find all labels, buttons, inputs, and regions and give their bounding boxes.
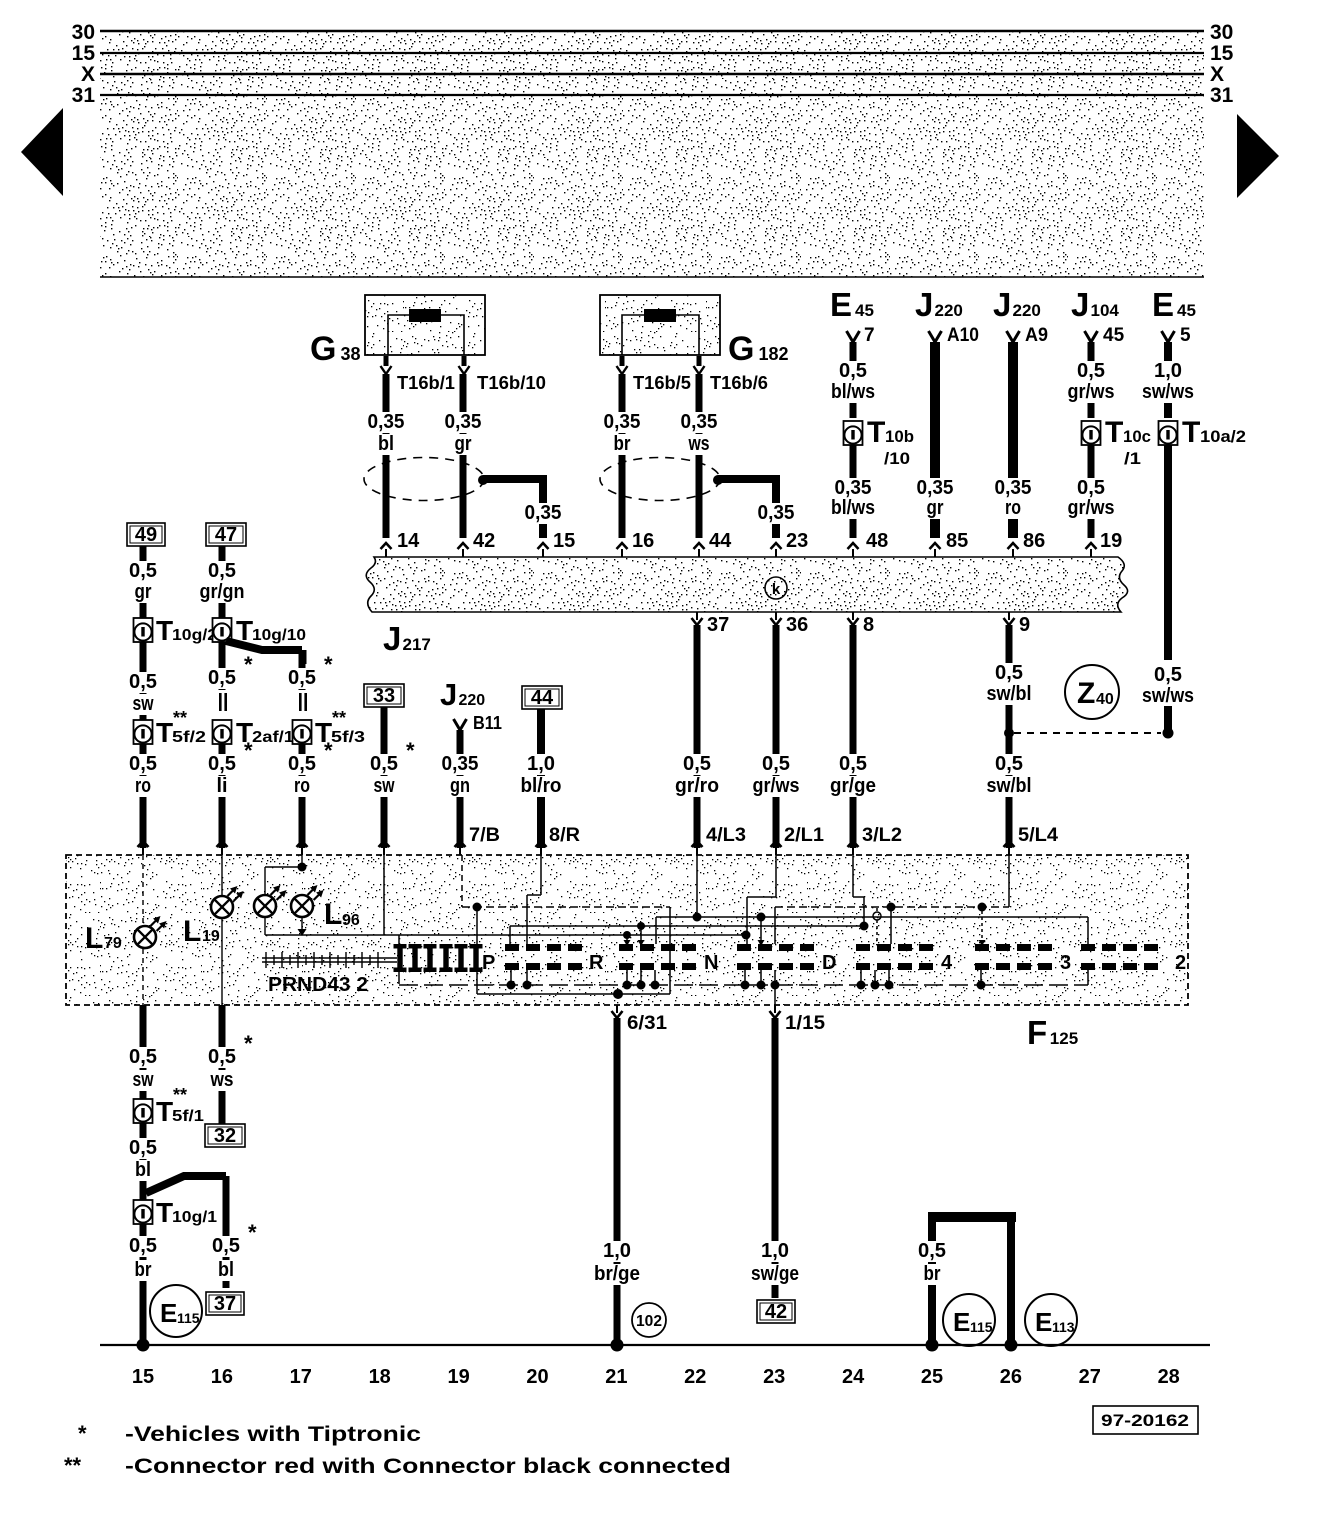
svg-text:25: 25 — [921, 1366, 943, 1388]
svg-text:bl/ws: bl/ws — [831, 381, 875, 403]
label Z40 circle — [1065, 665, 1119, 719]
svg-text:0,5: 0,5 — [208, 560, 236, 582]
svg-text:T: T — [156, 717, 173, 748]
contact group D — [737, 944, 751, 951]
svg-text:30: 30 — [1210, 21, 1233, 44]
svg-text:gr: gr — [135, 581, 152, 603]
wire 0,5* li to F125 — [219, 744, 226, 848]
J217 bottom pin 37 — [696, 612, 698, 620]
svg-text:2af/1: 2af/1 — [252, 729, 294, 746]
wire 0,35 ro from J220/A9 to J217 pin 86 — [1008, 342, 1018, 538]
svg-text:br/ge: br/ge — [594, 1263, 640, 1285]
svg-text:PRND43 2: PRND43 2 — [268, 974, 368, 996]
wire sw/ws down to Z40 node — [1164, 445, 1172, 660]
svg-text:37: 37 — [707, 614, 729, 636]
svg-text:0,5: 0,5 — [208, 753, 236, 775]
svg-text:15: 15 — [72, 42, 96, 65]
svg-text:0,35: 0,35 — [835, 477, 872, 499]
svg-text:A9: A9 — [1025, 325, 1048, 346]
svg-text:10g/1: 10g/1 — [172, 1209, 217, 1226]
svg-text:0,35: 0,35 — [604, 411, 641, 433]
svg-text:20: 20 — [526, 1366, 548, 1388]
svg-text:1,0: 1,0 — [1154, 360, 1182, 382]
svg-text:1,0: 1,0 — [761, 1240, 789, 1262]
switch wiper comb position P — [397, 944, 402, 972]
wire 0,35 bl from G38/1 to J217 pin 14 — [383, 374, 390, 538]
svg-text:X: X — [81, 63, 95, 86]
svg-text:47: 47 — [215, 524, 237, 546]
svg-text:0,5: 0,5 — [129, 1046, 157, 1068]
G182 shield junction — [713, 475, 723, 485]
svg-text:gn: gn — [450, 775, 470, 797]
break symbol col 16 — [219, 693, 222, 711]
svg-text:32: 32 — [214, 1125, 236, 1147]
svg-text:0,5: 0,5 — [129, 1235, 157, 1257]
svg-text:/1: /1 — [1124, 449, 1141, 468]
ground reference line — [100, 1344, 1210, 1346]
svg-text:sw: sw — [133, 1069, 154, 1091]
svg-text:X: X — [1210, 63, 1224, 86]
wire inside F125 col16 through lamp L19 — [221, 855, 223, 896]
svg-text:23: 23 — [763, 1366, 785, 1388]
svg-text:*: * — [78, 1421, 87, 1446]
svg-text:44: 44 — [709, 530, 732, 552]
svg-text:85: 85 — [946, 530, 968, 552]
lamp L19 — [211, 896, 233, 918]
svg-text:0,5: 0,5 — [995, 662, 1023, 684]
svg-text:24: 24 — [842, 1366, 865, 1388]
wire 1,0 sw/ge from F125/1-15 — [772, 1018, 779, 1298]
wire 0,5 gr/ws from J217/36 to F125 2/L1 — [773, 625, 780, 848]
svg-text:97-20162: 97-20162 — [1101, 1411, 1189, 1430]
wire 0,5 sw col15 below F125 — [140, 1005, 147, 1345]
wire 0,5 gr/ws to J217 pin 19 — [1088, 445, 1095, 538]
svg-text:li: li — [217, 775, 228, 797]
svg-text:45: 45 — [1103, 325, 1125, 346]
wire 0,35 gn from J220/B11 to F125 7/B — [457, 730, 464, 848]
svg-text:gr/gn: gr/gn — [200, 581, 245, 603]
svg-text:1,0: 1,0 — [603, 1240, 631, 1262]
svg-text:15: 15 — [553, 530, 575, 552]
svg-text:ro: ro — [1005, 497, 1021, 519]
svg-text:**: ** — [64, 1453, 82, 1478]
svg-text:T: T — [1105, 416, 1123, 449]
svg-text:36: 36 — [786, 614, 808, 636]
1/15 exit stub — [774, 970, 776, 1005]
ground designation E115 circle left — [150, 1285, 202, 1337]
svg-text:33: 33 — [373, 685, 395, 707]
svg-text:14: 14 — [397, 530, 420, 552]
Z40 equipotential dashed link — [1014, 732, 1161, 734]
contact group 4 — [856, 944, 870, 951]
svg-text:gr/ge: gr/ge — [830, 775, 876, 797]
svg-text:R: R — [589, 952, 604, 974]
svg-text:0,5: 0,5 — [129, 753, 157, 775]
svg-text:**: ** — [173, 1085, 187, 1105]
svg-text:0,5: 0,5 — [129, 1137, 157, 1159]
power supply band (terminals 30/15/X/31) — [100, 31, 1204, 277]
svg-text:38: 38 — [340, 344, 360, 364]
connection 32 box — [205, 1124, 245, 1147]
wire 0,5* ws col16 below F125 — [219, 1005, 226, 1124]
svg-text:86: 86 — [1023, 530, 1045, 552]
diagram number box 97-20162 — [1093, 1406, 1198, 1434]
svg-text:sw/ws: sw/ws — [1142, 685, 1194, 707]
svg-text:0,5: 0,5 — [683, 753, 711, 775]
wire 0,5 ro from T5f/2 to F125 — [140, 744, 147, 848]
node: wire end dot at Z40 line — [1163, 728, 1174, 739]
svg-text:21: 21 — [605, 1366, 627, 1388]
svg-text:G: G — [310, 330, 336, 368]
svg-text:104: 104 — [1091, 301, 1120, 320]
wire 0,35 ws from G182/6 to J217 pin 44 — [696, 374, 703, 538]
svg-text:P: P — [482, 952, 495, 974]
svg-text:1/15: 1/15 — [785, 1013, 825, 1034]
svg-text:br: br — [614, 433, 631, 455]
wire 0,5 gr/ge from J217/8 to F125 3/L2 — [850, 625, 857, 848]
J220 pin A9 arrow — [1007, 331, 1020, 342]
svg-text:0,5: 0,5 — [288, 753, 316, 775]
bus line 30 — [100, 30, 1204, 32]
svg-text:gr/ws: gr/ws — [1068, 497, 1115, 519]
svg-text:15: 15 — [1210, 42, 1234, 65]
svg-text:A10: A10 — [947, 325, 979, 346]
rail 5/L4 to D/4/3 contacts — [1008, 855, 1010, 907]
svg-text:ro: ro — [294, 775, 310, 797]
rail from sw wire and L96 to N/D contacts — [383, 855, 385, 935]
svg-text:J: J — [383, 620, 401, 657]
svg-text:J: J — [993, 286, 1011, 323]
svg-text:0,5: 0,5 — [129, 671, 157, 693]
svg-text:113: 113 — [1052, 1319, 1075, 1335]
lamp L96 right — [291, 895, 313, 917]
svg-text:22: 22 — [684, 1366, 706, 1388]
svg-text:17: 17 — [290, 1366, 312, 1388]
branch to connection 37 — [146, 1176, 226, 1193]
svg-text:220: 220 — [935, 301, 963, 320]
svg-text:217: 217 — [403, 635, 431, 654]
svg-text:-Connector red with Connector: -Connector red with Connector black conn… — [125, 1455, 731, 1478]
svg-text:2: 2 — [1175, 952, 1186, 974]
svg-text:sw/bl: sw/bl — [987, 683, 1032, 705]
wire 0,5* ro to F125 — [299, 744, 306, 848]
svg-text:15: 15 — [132, 1366, 154, 1388]
svg-text:0,35: 0,35 — [995, 477, 1032, 499]
svg-text:0,5: 0,5 — [370, 753, 398, 775]
svg-text:N: N — [704, 952, 718, 974]
wire 1,0 br/ge from F125/6-31 to ground — [614, 1018, 621, 1345]
svg-text:102: 102 — [636, 1313, 662, 1330]
svg-text:10g/2: 10g/2 — [172, 627, 217, 644]
svg-text:*: * — [324, 652, 333, 677]
svg-text:0,35: 0,35 — [758, 502, 795, 524]
svg-text:T16b/6: T16b/6 — [710, 373, 768, 393]
wire 0,5 sw/bl from J217/9 to F125 5/L4 — [1006, 625, 1013, 733]
svg-text:/10: /10 — [884, 449, 910, 468]
svg-text:0,35: 0,35 — [681, 411, 718, 433]
ground junction col26 — [1005, 1339, 1018, 1352]
connection 47 box — [206, 523, 246, 546]
G38 shield ellipse — [364, 458, 484, 501]
E45 pin 7 arrow — [847, 331, 860, 342]
svg-text:18: 18 — [369, 1366, 391, 1388]
svg-text:**: ** — [173, 708, 187, 728]
svg-text:B11: B11 — [473, 713, 502, 733]
svg-text:sw: sw — [374, 775, 395, 797]
svg-text:96: 96 — [342, 912, 360, 929]
ground designation E113 circle — [1025, 1294, 1077, 1346]
svg-text:28: 28 — [1158, 1366, 1180, 1388]
wire 0,35 bl/ws to J217 pin 48 — [850, 445, 857, 538]
svg-text:**: ** — [332, 708, 346, 728]
wire 1,0 sw/ws from E45/5 — [1164, 342, 1172, 418]
junction dot on sw/bl wire — [1004, 728, 1014, 738]
svg-text:J: J — [915, 286, 933, 323]
G38 pin T16b/10 — [462, 356, 467, 366]
break symbol col 17 — [299, 693, 302, 711]
multi-function switch F125 band — [66, 855, 1188, 1005]
svg-text:3: 3 — [1060, 952, 1071, 974]
svg-text:23: 23 — [786, 530, 808, 552]
G38 shield junction — [478, 475, 488, 485]
contact group R — [505, 944, 519, 951]
svg-text:ws: ws — [210, 1069, 234, 1091]
svg-text:gr: gr — [455, 433, 472, 455]
svg-text:19: 19 — [202, 928, 220, 945]
svg-text:115: 115 — [177, 1310, 200, 1326]
E45 pin 5 arrow — [1162, 331, 1175, 342]
rail 917 corner to contact 3 — [1087, 917, 1089, 944]
svg-text:48: 48 — [866, 530, 888, 552]
svg-text:45: 45 — [855, 301, 874, 320]
wire 0,5 br to ground — [126, 1236, 160, 1257]
svg-text:E: E — [1035, 1307, 1052, 1337]
svg-text:gr: gr — [927, 497, 944, 519]
svg-text:J: J — [1071, 286, 1089, 323]
J220 pin B11 arrow — [454, 719, 467, 730]
svg-text:5/L4: 5/L4 — [1018, 825, 1058, 846]
G38 shield drain wire to pin 15 — [483, 475, 547, 483]
bus line 31 — [100, 94, 1204, 96]
sensor G38 box — [365, 295, 485, 355]
svg-text:220: 220 — [1013, 301, 1041, 320]
wire 7/B dash-dot into F125 — [461, 855, 463, 907]
svg-text:8/R: 8/R — [549, 825, 580, 846]
svg-text:2/L1: 2/L1 — [784, 825, 824, 846]
bottom collector rail to terminal 1/15 — [399, 984, 1088, 986]
G182 shield drain wire to pin 23 — [718, 475, 780, 483]
svg-text:40: 40 — [1096, 691, 1114, 708]
svg-text:*: * — [244, 738, 253, 763]
sensor G182 box — [600, 295, 720, 355]
svg-text:*: * — [406, 738, 415, 763]
G38 pin T16b/1 — [384, 356, 389, 366]
wire 0,35 gr from J220/A10 to J217 pin 85 — [930, 342, 940, 538]
svg-text:125: 125 — [1050, 1029, 1078, 1048]
ground designation 102 circle — [632, 1303, 666, 1337]
svg-text:0,5: 0,5 — [129, 560, 157, 582]
ground designation E115 circle right — [943, 1294, 995, 1346]
svg-text:0,5: 0,5 — [1154, 664, 1182, 686]
svg-text:T: T — [1182, 416, 1200, 449]
wire 0,5 bl/ws from E45/7 — [850, 342, 857, 418]
G182 resistor element — [644, 309, 676, 322]
svg-text:10a/2: 10a/2 — [1200, 427, 1246, 446]
svg-text:79: 79 — [104, 935, 122, 952]
ground junction col15 — [137, 1339, 150, 1352]
contact group 2 — [1081, 944, 1095, 951]
svg-text:F: F — [1027, 1014, 1047, 1051]
svg-text:T16b/1: T16b/1 — [397, 373, 455, 393]
svg-text:7/B: 7/B — [469, 825, 500, 846]
contact group N — [619, 944, 633, 951]
svg-text:*: * — [248, 1220, 257, 1245]
svg-text:-Vehicles with Tiptronic: -Vehicles with Tiptronic — [125, 1423, 421, 1446]
svg-text:10g/10: 10g/10 — [252, 627, 306, 644]
G182 internal wires — [622, 315, 699, 355]
svg-text:*: * — [244, 652, 253, 677]
svg-text:sw/bl: sw/bl — [987, 775, 1032, 797]
G182 pin T16b/6 — [697, 356, 702, 366]
G38 resistor element — [409, 309, 441, 322]
svg-text:16: 16 — [632, 530, 654, 552]
svg-text:Z: Z — [1077, 677, 1095, 710]
svg-text:0,35: 0,35 — [917, 477, 954, 499]
svg-text:gr/ro: gr/ro — [675, 775, 719, 797]
rail 4/L3 to N and D contacts — [696, 855, 698, 917]
svg-text:16: 16 — [211, 1366, 233, 1388]
wire 8/R to R contact — [540, 855, 542, 895]
svg-text:0,5: 0,5 — [208, 667, 236, 689]
left continuation arrow — [21, 108, 63, 196]
svg-text:0,5: 0,5 — [288, 667, 316, 689]
svg-text:sw/ws: sw/ws — [1142, 381, 1194, 403]
svg-text:45: 45 — [1177, 301, 1196, 320]
svg-text:D: D — [822, 952, 836, 974]
ground junction col25 — [926, 1339, 939, 1352]
selector mechanical linkage PRND432 — [262, 957, 397, 959]
J217 bottom pin 36 — [775, 612, 777, 620]
svg-text:37: 37 — [214, 1293, 236, 1315]
G182 pin T16b/5 — [620, 356, 625, 366]
wire 0,35 gr from G38/10 to J217 pin 42 — [460, 374, 467, 538]
wire inside F125 col15 through lamp L79 — [142, 855, 144, 925]
connection 33 box — [364, 684, 404, 707]
svg-text:T16b/10: T16b/10 — [477, 373, 546, 393]
wire 0,5 gr/ws from J104/45 — [1088, 342, 1095, 418]
svg-text:10b: 10b — [885, 427, 914, 446]
svg-text:bl: bl — [218, 1259, 234, 1281]
ground junction col21 — [611, 1339, 624, 1352]
svg-text:42: 42 — [765, 1301, 787, 1323]
bus line 15 — [100, 52, 1204, 54]
svg-text:E: E — [160, 1298, 177, 1328]
svg-text:0,5: 0,5 — [1077, 360, 1105, 382]
svg-text:27: 27 — [1079, 1366, 1101, 1388]
svg-text:4: 4 — [941, 952, 953, 974]
rail to terminal 6/31 — [477, 993, 670, 995]
svg-text:0,5: 0,5 — [839, 360, 867, 382]
svg-text:5f/2: 5f/2 — [172, 729, 206, 746]
svg-text:44: 44 — [531, 687, 554, 709]
k-circle marker in J217 — [765, 577, 787, 599]
svg-text:220: 220 — [459, 692, 486, 709]
svg-text:0,5: 0,5 — [918, 1240, 946, 1262]
svg-text:19: 19 — [447, 1366, 469, 1388]
svg-text:42: 42 — [473, 530, 495, 552]
svg-text:*: * — [244, 1031, 253, 1056]
svg-text:E: E — [953, 1307, 970, 1337]
G182 shield ellipse — [600, 458, 720, 501]
svg-text:6/31: 6/31 — [627, 1013, 667, 1034]
wire 2/L1 to D contact — [775, 855, 777, 897]
svg-text:T16b/5: T16b/5 — [633, 373, 691, 393]
lamp L96 left — [254, 895, 276, 917]
connection 49 box — [127, 523, 165, 546]
svg-text:30: 30 — [72, 21, 95, 44]
wire 1,0 bl/ro from 44 to F125 8/R — [537, 709, 545, 848]
wire 0,5 gr/ro from J217/37 to F125 4/L3 — [694, 625, 701, 848]
svg-text:0,35: 0,35 — [445, 411, 482, 433]
F125 bottom pin 6/31 — [616, 1005, 618, 1013]
connection 42 box — [757, 1300, 795, 1323]
rail from 7/B to P frame and 6/31 — [462, 906, 670, 908]
svg-text:115: 115 — [970, 1319, 993, 1335]
svg-text:31: 31 — [1210, 84, 1234, 107]
J217 bottom pin 8 — [852, 612, 854, 620]
wire 0,5 sw from T10g/2 to T5f/2 — [140, 642, 147, 720]
svg-text:ro: ro — [135, 775, 151, 797]
svg-text:sw: sw — [133, 693, 154, 715]
svg-text:1,0: 1,0 — [527, 753, 555, 775]
svg-text:L: L — [324, 898, 342, 931]
wires of lamps L96 — [301, 855, 303, 867]
svg-text:0,35: 0,35 — [525, 502, 562, 524]
svg-text:T: T — [156, 1197, 173, 1228]
svg-text:26: 26 — [1000, 1366, 1022, 1388]
svg-text:E: E — [830, 286, 852, 323]
wire 0,5 gr/gn from 47 — [219, 546, 226, 618]
ground strap cols 25-26 — [928, 1212, 1016, 1222]
svg-text:3/L2: 3/L2 — [862, 825, 902, 846]
svg-text:0,5: 0,5 — [1077, 477, 1105, 499]
F125 bottom pin 1/15 — [774, 1005, 776, 1013]
wire 0,5 bl — [126, 1138, 160, 1159]
G38 internal wires — [388, 315, 464, 355]
svg-text:bl/ro: bl/ro — [521, 775, 562, 797]
svg-text:br: br — [924, 1263, 941, 1285]
svg-text:182: 182 — [758, 344, 788, 364]
svg-text:0,5: 0,5 — [839, 753, 867, 775]
wire 0,5* sw from 33 to F125 — [381, 707, 388, 848]
svg-text:G: G — [728, 330, 754, 368]
svg-text:T: T — [156, 1096, 173, 1127]
svg-text:0,5: 0,5 — [208, 1046, 236, 1068]
band bottom edge — [100, 276, 1204, 278]
svg-text:5: 5 — [1180, 325, 1191, 346]
svg-text:49: 49 — [135, 524, 157, 546]
svg-text:0,5: 0,5 — [995, 753, 1023, 775]
svg-text:k: k — [772, 581, 781, 598]
J217 bottom pin 9 — [1008, 612, 1010, 620]
svg-text:8: 8 — [863, 614, 874, 636]
connection 44 box — [522, 686, 562, 709]
J104 pin 45 arrow — [1085, 331, 1098, 342]
svg-text:0,35: 0,35 — [368, 411, 405, 433]
svg-text:sw/ge: sw/ge — [751, 1263, 799, 1285]
contact group 3 — [975, 944, 989, 951]
connection 37 box — [206, 1292, 244, 1315]
